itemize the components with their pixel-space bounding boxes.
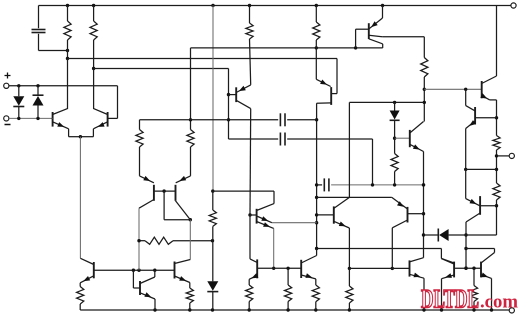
svg-text:.com: .com: [480, 292, 518, 313]
svg-text:DLTDL: DLTDL: [421, 285, 479, 314]
